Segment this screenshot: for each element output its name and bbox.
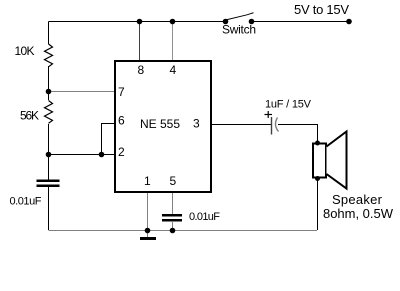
wire top rail left — [49, 21, 226, 23]
node C2 ground rail — [170, 228, 176, 234]
svg-text:8ohm, 0.5W: 8ohm, 0.5W — [323, 206, 394, 221]
svg-text:Speaker: Speaker — [332, 192, 383, 207]
wire V+ to resistor R1 — [48, 22, 50, 45]
IC U1 NE555 — [115, 61, 211, 192]
node V+ terminal — [346, 19, 352, 25]
svg-text:6: 6 — [118, 114, 125, 128]
wire R2 to capacitor C1 — [48, 124, 50, 180]
svg-text:7: 7 — [118, 85, 125, 99]
node speaker bottom — [315, 176, 320, 181]
capacitor C1 0.01uF — [37, 180, 60, 188]
ground symbol — [140, 230, 156, 240]
svg-text:2: 2 — [118, 145, 125, 159]
wire C1 to ground rail — [48, 187, 50, 230]
svg-text:5: 5 — [170, 174, 177, 188]
wire pin 2 — [49, 154, 115, 156]
wire pin 6 tie to pin 2 — [102, 124, 115, 155]
svg-text:Switch: Switch — [222, 23, 256, 37]
svg-text:NE 555: NE 555 — [140, 117, 180, 131]
svg-text:10K: 10K — [15, 44, 35, 58]
wire pin 3 output — [211, 124, 271, 126]
node speaker top — [315, 141, 320, 146]
node junction pin8 rail — [137, 19, 143, 25]
switch S1 — [223, 13, 255, 25]
speaker LS1 — [313, 132, 347, 189]
wire pin 4 to rail — [172, 22, 174, 61]
wire C2 to ground rail — [172, 222, 174, 230]
wire top rail right — [252, 21, 350, 23]
node junction R1 R2 pin7 — [46, 89, 52, 95]
node junction R2 C1 pin2 — [46, 152, 52, 158]
node pin1 ground rail — [145, 228, 151, 234]
wire pin 8 to rail — [139, 22, 141, 61]
capacitor C3 1uF polarized — [272, 117, 279, 135]
svg-text:56K: 56K — [20, 109, 39, 123]
wire pin 1 — [147, 192, 149, 230]
wire R1 to R2 segment — [48, 66, 50, 100]
node junction pin4 rail — [170, 19, 176, 25]
svg-text:3: 3 — [193, 117, 200, 131]
capacitor C2 0.01uF — [162, 214, 182, 222]
svg-text:1uF / 15V: 1uF / 15V — [265, 99, 312, 111]
svg-text:0.01uF: 0.01uF — [10, 196, 42, 208]
resistor R1 10K — [45, 44, 53, 67]
svg-text:5V to 15V: 5V to 15V — [294, 2, 349, 17]
wire pin 7 — [49, 91, 115, 93]
svg-text:0.01uF: 0.01uF — [189, 211, 220, 223]
svg-text:1: 1 — [144, 174, 151, 188]
svg-text:4: 4 — [170, 63, 177, 77]
resistor R2 56K — [45, 101, 53, 124]
wire pin 5 to capacitor C2 — [172, 192, 174, 214]
svg-text:8: 8 — [138, 63, 145, 77]
wire bottom ground rail — [49, 230, 318, 232]
wire speaker to ground rail — [317, 178, 319, 230]
node junction pin2 pin6 — [99, 152, 105, 158]
label plus polarity — [265, 111, 273, 118]
wire C3 to speaker — [278, 125, 318, 144]
